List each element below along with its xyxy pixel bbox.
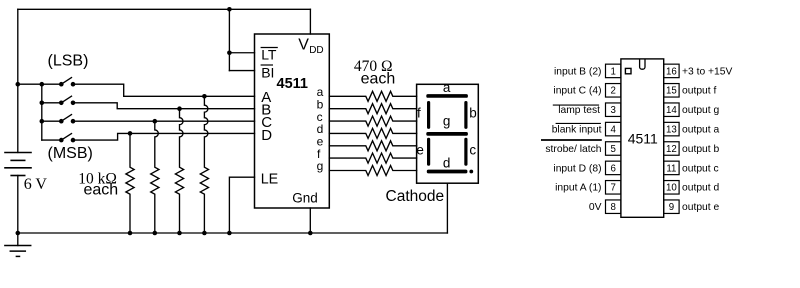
resistor R2 10k (line C) with hop over D: [151, 121, 159, 233]
svg-text:8: 8: [611, 202, 616, 213]
wire row4 to pin D: [73, 133, 255, 140]
overline LT: [261, 47, 278, 49]
battery 6V: [5, 153, 31, 176]
node ground rail left: [15, 231, 20, 236]
svg-text:e: e: [416, 142, 424, 157]
pin 6 box: [606, 161, 621, 175]
node sub-bus row3: [40, 119, 45, 124]
svg-text:LT: LT: [261, 46, 277, 62]
switch SW1 (LSB): [59, 78, 75, 87]
svg-text:output f: output f: [682, 86, 716, 97]
svg-text:input C (4): input C (4): [553, 86, 601, 97]
svg-text:output b: output b: [682, 144, 719, 155]
node top junction: [227, 7, 232, 12]
pin 13 box: [664, 122, 679, 136]
wire LE pin: [229, 177, 254, 233]
svg-text:blank input: blank input: [552, 124, 602, 135]
pin 10 box: [664, 181, 679, 195]
segment b: [464, 101, 467, 129]
overline blank input: [556, 122, 601, 124]
wire row3 stub: [42, 120, 62, 122]
svg-text:input A (1): input A (1): [555, 183, 601, 194]
svg-text:g: g: [317, 159, 324, 173]
wire top supply rail: [18, 8, 311, 10]
wire row2 stub: [42, 102, 62, 104]
switch SW4 (MSB): [59, 134, 75, 143]
resistor R8 470 (d): [329, 128, 416, 138]
svg-text:Gnd: Gnd: [292, 190, 318, 205]
resistor R7 470 (c): [329, 116, 416, 126]
svg-text:4: 4: [611, 124, 617, 135]
svg-text:(MSB): (MSB): [48, 145, 93, 162]
wire row1 bus to pole: [18, 83, 62, 85]
segment d: [427, 170, 468, 174]
node R1 bottom: [128, 231, 133, 236]
svg-text:+3 to +15V: +3 to +15V: [682, 66, 733, 77]
svg-text:5: 5: [611, 144, 616, 155]
node R3 top on line B: [177, 106, 182, 111]
svg-text:(LSB): (LSB): [48, 53, 89, 70]
svg-text:D: D: [261, 127, 272, 144]
svg-text:a: a: [443, 80, 451, 95]
svg-text:output e: output e: [682, 202, 719, 213]
wire row3 to pin C: [73, 120, 255, 122]
resistor R3 10k (line B) with hops over C,D: [175, 109, 183, 233]
svg-text:9: 9: [669, 202, 674, 213]
wire battery to ground rail: [17, 176, 19, 234]
pinout: IC body: [621, 59, 664, 217]
svg-text:output g: output g: [682, 105, 719, 116]
op-amp U1 4511 IC box: [255, 34, 330, 208]
svg-text:LE: LE: [261, 172, 279, 188]
resistor R9 470 (e): [329, 141, 416, 151]
wire left bus: [17, 9, 19, 152]
svg-text:output a: output a: [682, 124, 719, 135]
svg-text:3: 3: [611, 105, 616, 116]
svg-text:1: 1: [611, 66, 616, 77]
svg-text:f: f: [417, 106, 421, 121]
pin 9 box: [664, 200, 679, 214]
node sub-bus row2: [40, 101, 45, 106]
segment c: [464, 138, 467, 166]
svg-text:each: each: [84, 182, 119, 199]
svg-text:output c: output c: [682, 163, 719, 174]
svg-text:6 V: 6 V: [24, 176, 48, 193]
svg-text:4511: 4511: [628, 131, 658, 147]
pin 3 box: [606, 103, 621, 117]
svg-text:Cathode: Cathode: [386, 188, 445, 205]
svg-text:10: 10: [666, 183, 677, 194]
decimal point: [469, 170, 473, 174]
svg-text:13: 13: [666, 124, 677, 135]
svg-text:0V: 0V: [589, 202, 602, 213]
segment g: [426, 132, 468, 136]
wire ground stub: [17, 233, 19, 246]
ground: [5, 246, 31, 257]
overline lamp test: [553, 104, 599, 106]
resistor R5 470 (a): [329, 91, 416, 101]
pin 2 box: [606, 84, 621, 98]
pin 7 box: [606, 181, 621, 195]
node R3 bottom: [177, 231, 182, 236]
segment a: [426, 94, 468, 98]
wire Gnd pin: [309, 208, 311, 233]
svg-text:4511: 4511: [277, 76, 308, 92]
node R4 top on line A: [202, 94, 207, 99]
node R1 top on line D: [128, 131, 133, 136]
resistor R6 470 (b): [329, 104, 416, 114]
svg-text:V: V: [298, 36, 309, 53]
svg-text:g: g: [443, 113, 451, 128]
svg-text:input B (2): input B (2): [554, 66, 602, 77]
resistor R1 10k (line D): [126, 133, 134, 233]
svg-text:12: 12: [666, 144, 677, 155]
pin 12 box: [664, 142, 679, 156]
node R2 top on line C: [153, 119, 158, 124]
switch SW2: [59, 96, 75, 105]
wire to LT pin: [229, 52, 254, 54]
wire VDD drop to IC: [309, 9, 311, 34]
wire sub-bus vertical: [41, 84, 43, 140]
svg-text:output d: output d: [682, 183, 719, 194]
svg-text:15: 15: [666, 86, 677, 97]
pin 11 box: [664, 161, 679, 175]
wire row1 to pin A: [73, 84, 255, 96]
wire row4 stub: [42, 139, 62, 141]
svg-text:7: 7: [611, 183, 616, 194]
resistor R11 470 (g): [329, 166, 416, 176]
node bus to switches: [15, 82, 20, 87]
segment f: [427, 101, 430, 129]
wire to BI pin: [229, 70, 254, 72]
node R4 bottom: [202, 231, 207, 236]
pin 15 box: [664, 84, 679, 98]
svg-text:11: 11: [666, 163, 676, 174]
node LT junction: [227, 50, 232, 55]
pin 1 box: [606, 64, 621, 78]
svg-text:each: each: [361, 71, 396, 88]
node R2 bottom: [153, 231, 158, 236]
svg-text:14: 14: [666, 105, 677, 116]
svg-text:DD: DD: [309, 45, 323, 56]
svg-text:6: 6: [611, 163, 616, 174]
svg-text:d: d: [443, 155, 451, 170]
pin 8 box: [606, 200, 621, 214]
segment e: [427, 138, 430, 166]
node sub-bus row1: [40, 82, 45, 87]
svg-text:strobe/ latch: strobe/ latch: [545, 144, 601, 155]
svg-text:input D (8): input D (8): [553, 163, 601, 174]
7-segment display box: [417, 84, 479, 183]
pin 4 box: [606, 122, 621, 136]
node LE rail: [227, 231, 232, 236]
svg-text:lamp test: lamp test: [558, 105, 600, 116]
pinout: notch: [640, 59, 645, 69]
overline strobe/latch: [541, 139, 602, 141]
svg-text:c: c: [469, 143, 476, 158]
pin 14 box: [664, 103, 679, 117]
wire cathode: [446, 183, 448, 233]
svg-text:2: 2: [611, 86, 616, 97]
wire LT/BI branch vertical: [228, 9, 230, 70]
resistor R4 10k (line A) with hops over B,C,D: [200, 96, 208, 233]
node Gnd rail: [308, 231, 313, 236]
pin 16 box: [664, 64, 679, 78]
wire row2 to pin B: [73, 103, 255, 109]
resistor R10 470 (f): [329, 153, 416, 163]
svg-text:BI: BI: [261, 64, 274, 80]
pin 5 box: [606, 142, 621, 156]
switch SW3: [59, 115, 75, 124]
svg-text:b: b: [469, 106, 477, 121]
svg-text:16: 16: [666, 66, 677, 77]
wire bottom rail: [18, 232, 448, 234]
overline BI: [261, 64, 273, 66]
pinout: pin1 marker: [625, 68, 631, 73]
